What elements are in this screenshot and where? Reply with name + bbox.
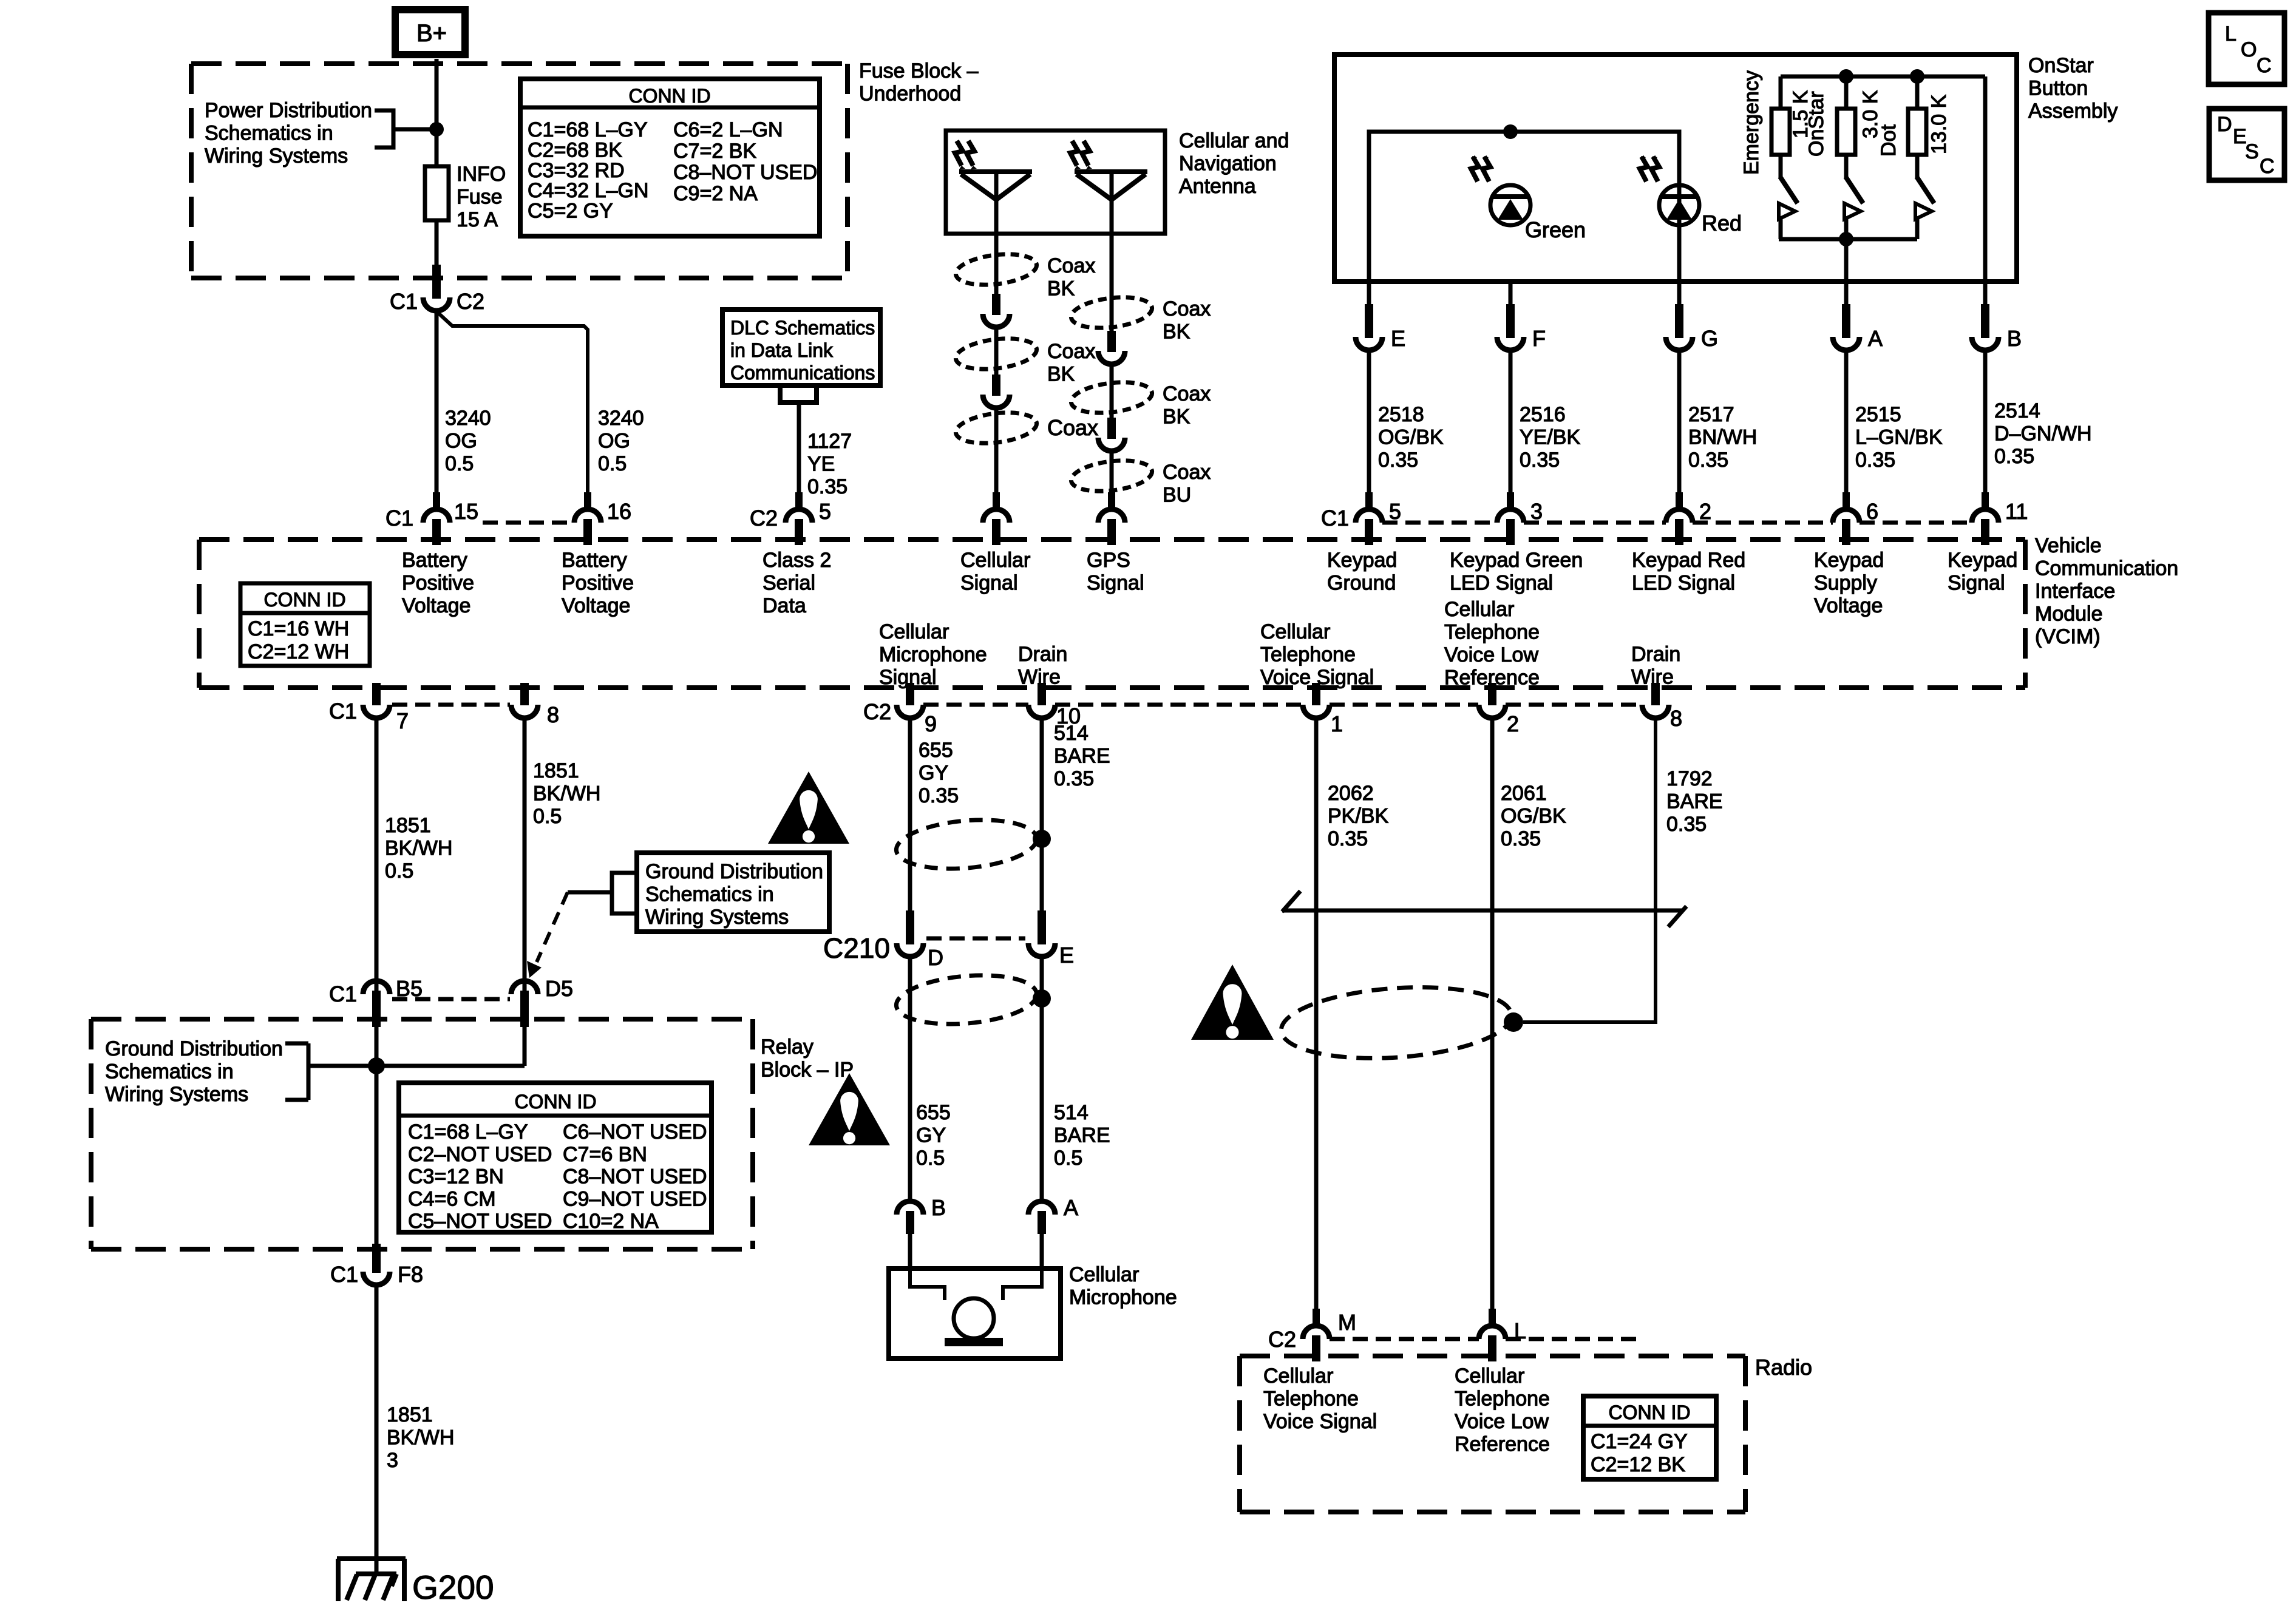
svg-text:OG: OG — [445, 430, 477, 453]
svg-text:A: A — [1868, 326, 1883, 351]
svg-text:Positive: Positive — [402, 572, 474, 595]
svg-text:0.35: 0.35 — [1054, 767, 1094, 790]
svg-text:Coax: Coax — [1163, 297, 1211, 320]
svg-text:E: E — [1391, 326, 1405, 351]
svg-text:BK: BK — [1163, 320, 1190, 344]
svg-text:Red: Red — [1702, 211, 1742, 236]
svg-text:C1: C1 — [329, 981, 357, 1006]
svg-text:Battery: Battery — [402, 549, 467, 572]
svg-text:Signal: Signal — [1948, 572, 2005, 595]
svg-text:Serial: Serial — [763, 572, 815, 595]
svg-text:15 A: 15 A — [457, 208, 498, 231]
svg-text:2516: 2516 — [1520, 403, 1566, 426]
svg-text:Ground: Ground — [1327, 572, 1396, 595]
svg-text:BARE: BARE — [1054, 745, 1110, 768]
svg-text:CONN ID: CONN ID — [263, 589, 345, 611]
svg-text:C2=68 BK: C2=68 BK — [528, 138, 622, 161]
svg-text:Keypad Green: Keypad Green — [1450, 549, 1583, 572]
svg-text:Module: Module — [2035, 603, 2103, 626]
svg-text:Coax: Coax — [1163, 461, 1211, 484]
svg-text:11: 11 — [2005, 499, 2028, 524]
svg-text:Class 2: Class 2 — [763, 549, 831, 572]
svg-text:Voltage: Voltage — [562, 594, 630, 617]
svg-text:2517: 2517 — [1688, 403, 1734, 426]
svg-text:GY: GY — [916, 1124, 946, 1147]
svg-text:Voice Low: Voice Low — [1455, 1410, 1549, 1433]
svg-text:Relay: Relay — [761, 1036, 813, 1059]
svg-text:Block – IP: Block – IP — [761, 1059, 854, 1082]
svg-text:5: 5 — [1389, 499, 1401, 524]
svg-text:C9=2 NA: C9=2 NA — [673, 182, 758, 205]
svg-text:9: 9 — [925, 711, 937, 736]
svg-text:D: D — [928, 945, 943, 970]
svg-text:0.35: 0.35 — [1688, 449, 1728, 472]
svg-text:LED Signal: LED Signal — [1632, 572, 1735, 595]
svg-text:C5=2 GY: C5=2 GY — [528, 200, 613, 223]
svg-text:Telephone: Telephone — [1260, 643, 1356, 666]
svg-text:Drain: Drain — [1018, 643, 1067, 666]
svg-text:0.35: 0.35 — [1328, 827, 1368, 850]
svg-text:C3=12 BN: C3=12 BN — [408, 1165, 504, 1188]
svg-text:C1=68 L–GY: C1=68 L–GY — [528, 118, 648, 141]
svg-text:0.35: 0.35 — [807, 475, 847, 498]
svg-text:YE: YE — [807, 453, 835, 476]
svg-text:BK/WH: BK/WH — [533, 782, 600, 805]
svg-text:Ground Distribution: Ground Distribution — [645, 860, 823, 883]
svg-text:Keypad Red: Keypad Red — [1632, 549, 1745, 572]
svg-text:C2: C2 — [457, 289, 484, 314]
svg-text:1851: 1851 — [533, 759, 579, 782]
svg-text:C: C — [2260, 155, 2275, 178]
svg-text:0.35: 0.35 — [1855, 449, 1895, 472]
svg-text:Reference: Reference — [1455, 1433, 1550, 1456]
svg-text:3240: 3240 — [445, 407, 491, 430]
svg-text:514: 514 — [1054, 1101, 1089, 1124]
svg-text:Voltage: Voltage — [402, 594, 470, 617]
svg-text:C4=32 L–GN: C4=32 L–GN — [528, 179, 648, 202]
svg-text:INFO: INFO — [457, 163, 506, 186]
svg-text:Telephone: Telephone — [1444, 621, 1540, 644]
svg-text:C210: C210 — [823, 932, 890, 964]
svg-text:B: B — [2007, 326, 2022, 351]
svg-text:Voice Signal: Voice Signal — [1263, 1410, 1377, 1433]
svg-text:C1=24 GY: C1=24 GY — [1591, 1430, 1688, 1453]
svg-text:C7=2 BK: C7=2 BK — [673, 140, 756, 163]
svg-text:DLC Schematics: DLC Schematics — [730, 317, 875, 339]
svg-text:BK/WH: BK/WH — [385, 837, 452, 860]
svg-text:C2: C2 — [750, 506, 778, 531]
svg-text:C1: C1 — [329, 699, 357, 724]
svg-text:2: 2 — [1699, 499, 1711, 524]
svg-text:CONN ID: CONN ID — [1608, 1402, 1690, 1423]
svg-text:Emergency: Emergency — [1740, 70, 1763, 175]
svg-text:GPS: GPS — [1087, 549, 1130, 572]
svg-text:C8–NOT USED: C8–NOT USED — [673, 161, 817, 184]
svg-text:0.5: 0.5 — [445, 452, 474, 475]
svg-text:Vehicle: Vehicle — [2035, 534, 2102, 557]
svg-text:D–GN/WH: D–GN/WH — [1994, 422, 2092, 446]
svg-text:Cellular: Cellular — [1260, 620, 1330, 643]
svg-text:1792: 1792 — [1666, 767, 1713, 790]
svg-text:C10=2 NA: C10=2 NA — [563, 1210, 659, 1233]
svg-text:2: 2 — [1507, 711, 1519, 736]
svg-text:Wiring Systems: Wiring Systems — [105, 1083, 248, 1106]
svg-text:0.35: 0.35 — [1666, 813, 1707, 836]
svg-text:Radio: Radio — [1755, 1355, 1812, 1380]
svg-text:in Data Link: in Data Link — [730, 339, 834, 361]
svg-text:A: A — [1064, 1195, 1078, 1220]
svg-text:BN/WH: BN/WH — [1688, 426, 1757, 449]
svg-text:Navigation: Navigation — [1179, 152, 1277, 175]
svg-text:8: 8 — [547, 702, 559, 727]
svg-text:3240: 3240 — [598, 407, 644, 430]
svg-text:OnStar: OnStar — [1805, 91, 1828, 157]
svg-text:Cellular: Cellular — [1263, 1364, 1333, 1388]
svg-text:Cellular: Cellular — [1444, 598, 1514, 621]
svg-text:0.35: 0.35 — [1378, 449, 1418, 472]
svg-text:Cellular: Cellular — [1069, 1263, 1139, 1286]
svg-text:BARE: BARE — [1054, 1124, 1110, 1147]
svg-text:Signal: Signal — [1087, 572, 1144, 595]
svg-text:BARE: BARE — [1666, 790, 1723, 813]
svg-text:2515: 2515 — [1855, 403, 1901, 426]
svg-text:16: 16 — [607, 499, 631, 524]
svg-text:L: L — [2225, 22, 2237, 46]
svg-text:Schematics in: Schematics in — [105, 1060, 234, 1083]
svg-text:0.5: 0.5 — [598, 452, 627, 475]
svg-text:Power Distribution: Power Distribution — [205, 99, 372, 122]
svg-text:15: 15 — [454, 499, 478, 524]
svg-text:C9–NOT USED: C9–NOT USED — [563, 1187, 707, 1210]
svg-text:Battery: Battery — [562, 549, 627, 572]
svg-text:C1=68 L–GY: C1=68 L–GY — [408, 1120, 528, 1144]
svg-text:M: M — [1338, 1310, 1356, 1335]
svg-text:OG/BK: OG/BK — [1501, 805, 1566, 828]
svg-text:Cellular: Cellular — [1455, 1364, 1524, 1388]
svg-text:F8: F8 — [398, 1262, 423, 1287]
svg-text:C3=32 RD: C3=32 RD — [528, 159, 625, 182]
svg-text:Dot: Dot — [1877, 124, 1900, 157]
svg-text:Interface: Interface — [2035, 580, 2115, 603]
svg-text:Ground Distribution: Ground Distribution — [105, 1037, 283, 1060]
svg-text:1: 1 — [1331, 711, 1343, 736]
svg-text:Supply: Supply — [1814, 572, 1877, 595]
svg-text:Cellular and: Cellular and — [1179, 129, 1289, 152]
svg-text:1127: 1127 — [807, 430, 852, 453]
svg-text:B: B — [931, 1195, 946, 1220]
svg-text:D: D — [2217, 113, 2232, 136]
svg-text:2514: 2514 — [1994, 399, 2040, 422]
svg-text:O: O — [2241, 38, 2257, 61]
svg-text:BK: BK — [1163, 405, 1190, 429]
svg-text:Fuse Block –: Fuse Block – — [859, 59, 979, 83]
svg-text:C1: C1 — [330, 1262, 358, 1287]
svg-text:Antenna: Antenna — [1179, 175, 1256, 198]
svg-text:C: C — [2257, 54, 2272, 77]
svg-text:BK/WH: BK/WH — [387, 1426, 454, 1449]
svg-text:Cellular: Cellular — [960, 549, 1030, 572]
svg-text:C7=6 BN: C7=6 BN — [563, 1143, 647, 1166]
svg-text:C1: C1 — [385, 506, 413, 531]
svg-text:BU: BU — [1163, 484, 1191, 507]
svg-text:0.5: 0.5 — [533, 805, 562, 828]
svg-text:E: E — [1059, 943, 1074, 968]
svg-text:S: S — [2245, 140, 2259, 163]
svg-text:Button: Button — [2028, 77, 2088, 100]
svg-text:(VCIM): (VCIM) — [2035, 625, 2101, 648]
svg-text:Coax: Coax — [1047, 415, 1098, 440]
svg-text:Positive: Positive — [562, 572, 634, 595]
svg-text:Fuse: Fuse — [457, 186, 503, 209]
svg-text:0.5: 0.5 — [916, 1147, 945, 1170]
svg-text:0.35: 0.35 — [919, 784, 959, 807]
svg-text:C8–NOT USED: C8–NOT USED — [563, 1165, 707, 1188]
svg-text:Coax: Coax — [1163, 382, 1211, 405]
svg-text:B+: B+ — [416, 20, 447, 47]
svg-text:C2: C2 — [863, 699, 891, 724]
svg-text:Keypad: Keypad — [1948, 549, 2017, 572]
svg-text:2061: 2061 — [1501, 782, 1547, 805]
svg-text:655: 655 — [919, 739, 953, 762]
svg-text:BK: BK — [1047, 277, 1075, 300]
svg-text:1851: 1851 — [385, 814, 431, 837]
svg-text:3: 3 — [1530, 499, 1543, 524]
svg-text:C5–NOT USED: C5–NOT USED — [408, 1210, 552, 1233]
svg-text:C4=6 CM: C4=6 CM — [408, 1187, 496, 1210]
svg-text:Telephone: Telephone — [1263, 1388, 1359, 1411]
svg-text:Voice Low: Voice Low — [1444, 643, 1538, 666]
svg-text:2062: 2062 — [1328, 782, 1374, 805]
svg-text:Wiring Systems: Wiring Systems — [645, 906, 789, 929]
svg-text:Voltage: Voltage — [1814, 594, 1883, 617]
svg-text:13.0 K: 13.0 K — [1927, 94, 1951, 154]
svg-text:C1: C1 — [390, 289, 418, 314]
svg-text:Green: Green — [1525, 217, 1586, 242]
svg-text:Keypad: Keypad — [1814, 549, 1884, 572]
svg-text:514: 514 — [1054, 722, 1089, 745]
svg-text:OG/BK: OG/BK — [1378, 426, 1444, 449]
svg-text:C2–NOT USED: C2–NOT USED — [408, 1143, 552, 1166]
svg-text:Microphone: Microphone — [1069, 1286, 1177, 1309]
svg-text:Communications: Communications — [730, 362, 875, 384]
svg-text:D5: D5 — [545, 976, 573, 1001]
svg-text:CONN ID: CONN ID — [514, 1091, 596, 1113]
svg-text:C6=2 L–GN: C6=2 L–GN — [673, 118, 783, 141]
svg-text:Microphone: Microphone — [879, 643, 987, 666]
svg-text:Drain: Drain — [1631, 643, 1680, 666]
svg-text:OnStar: OnStar — [2028, 54, 2094, 77]
svg-text:655: 655 — [916, 1101, 951, 1124]
svg-text:L–GN/BK: L–GN/BK — [1855, 426, 1943, 449]
svg-text:3: 3 — [387, 1449, 398, 1472]
svg-text:5: 5 — [819, 499, 831, 524]
svg-text:C6–NOT USED: C6–NOT USED — [563, 1120, 707, 1144]
svg-text:Assembly: Assembly — [2028, 100, 2118, 123]
svg-text:C2: C2 — [1268, 1327, 1296, 1352]
svg-text:1851: 1851 — [387, 1403, 433, 1426]
svg-text:F: F — [1532, 326, 1546, 351]
svg-text:Signal: Signal — [960, 572, 1018, 595]
svg-text:0.35: 0.35 — [1520, 449, 1560, 472]
svg-text:G: G — [1701, 326, 1718, 351]
svg-text:Wiring Systems: Wiring Systems — [205, 144, 348, 168]
svg-text:C2=12 BK: C2=12 BK — [1591, 1453, 1685, 1476]
svg-text:C1: C1 — [1321, 506, 1349, 531]
svg-text:C1=16 WH: C1=16 WH — [248, 617, 349, 640]
svg-text:0.5: 0.5 — [1054, 1147, 1082, 1170]
svg-text:8: 8 — [1670, 706, 1682, 731]
svg-text:0.35: 0.35 — [1501, 827, 1541, 850]
svg-text:Underhood: Underhood — [859, 83, 961, 106]
svg-text:Coax: Coax — [1047, 254, 1095, 277]
svg-text:Communication: Communication — [2035, 557, 2178, 580]
svg-text:BK: BK — [1047, 363, 1075, 386]
svg-text:Coax: Coax — [1047, 340, 1095, 363]
svg-text:Keypad: Keypad — [1327, 549, 1397, 572]
svg-text:LED Signal: LED Signal — [1450, 572, 1553, 595]
svg-text:Data: Data — [763, 594, 806, 617]
svg-text:Telephone: Telephone — [1455, 1388, 1550, 1411]
svg-text:GY: GY — [919, 762, 948, 785]
svg-text:0.5: 0.5 — [385, 859, 413, 883]
svg-text:6: 6 — [1866, 499, 1878, 524]
svg-text:G200: G200 — [412, 1568, 494, 1606]
svg-text:CONN ID: CONN ID — [628, 85, 710, 107]
svg-text:0.35: 0.35 — [1994, 445, 2034, 468]
svg-text:C2=12 WH: C2=12 WH — [248, 640, 349, 663]
svg-text:Cellular: Cellular — [879, 620, 949, 643]
svg-text:7: 7 — [396, 708, 409, 733]
svg-text:OG: OG — [598, 430, 630, 453]
svg-text:YE/BK: YE/BK — [1520, 426, 1580, 449]
svg-text:Schematics in: Schematics in — [205, 122, 333, 145]
svg-text:PK/BK: PK/BK — [1328, 805, 1388, 828]
svg-text:Schematics in: Schematics in — [645, 883, 774, 906]
svg-text:2518: 2518 — [1378, 403, 1424, 426]
